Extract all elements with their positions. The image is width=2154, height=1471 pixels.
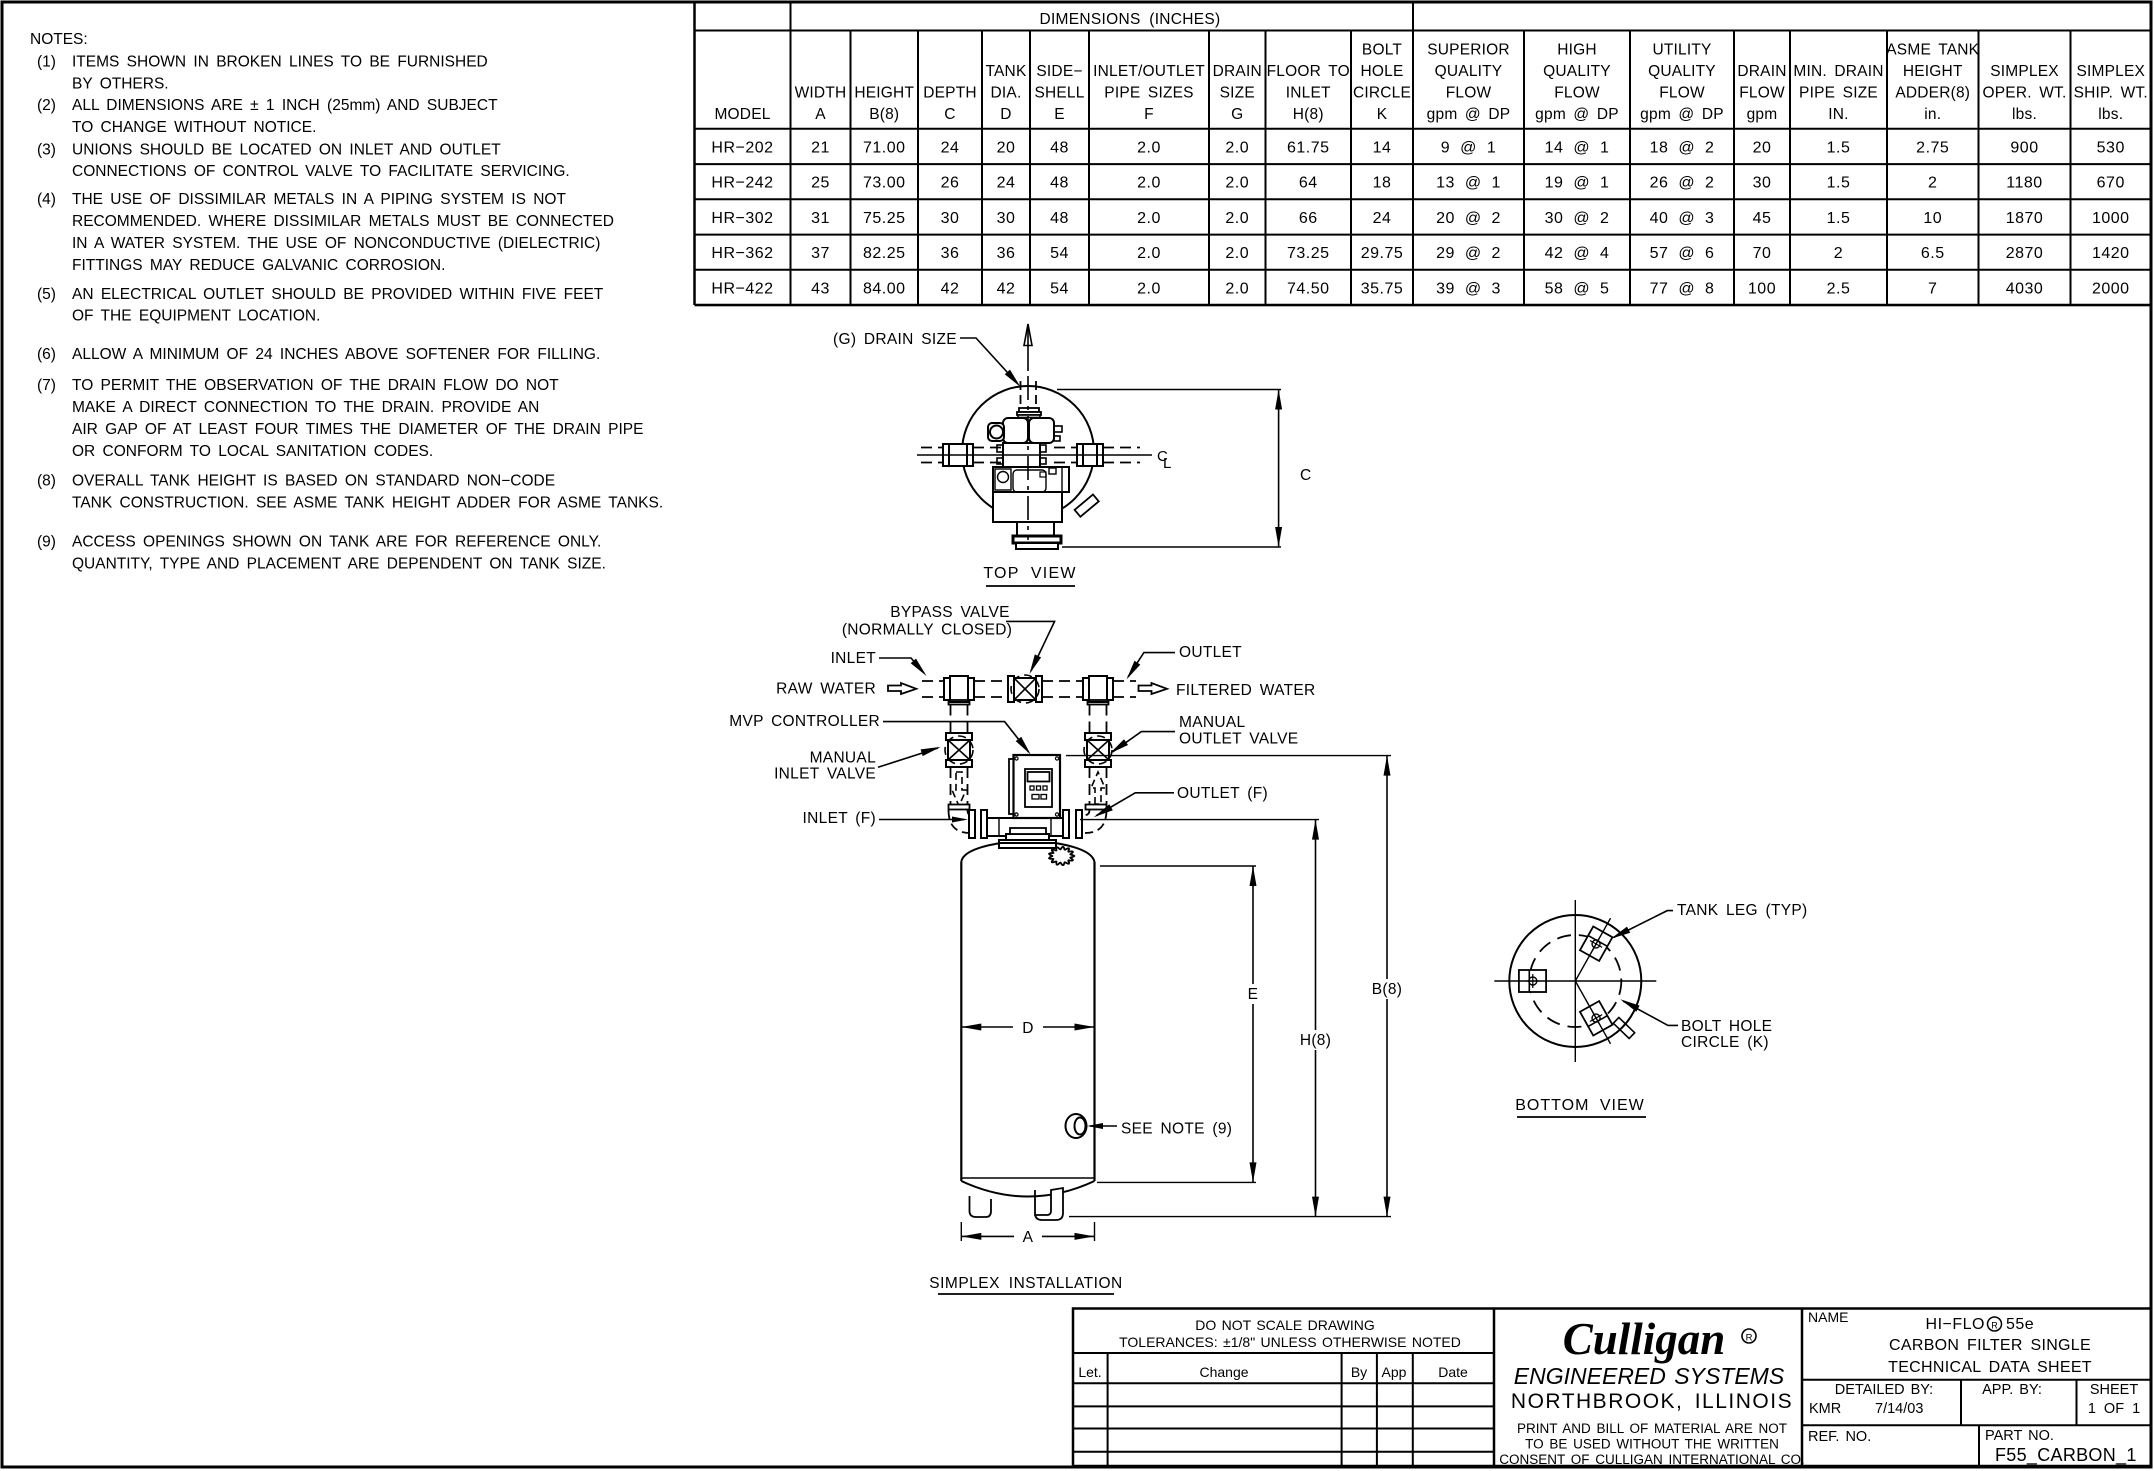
svg-text:2.0: 2.0 [1225, 245, 1249, 262]
svg-text:NORTHBROOK, ILLINOIS: NORTHBROOK, ILLINOIS [1511, 1390, 1793, 1413]
top view: bottom cylinder [1017, 522, 1054, 538]
svg-text:TO PERMIT THE OBSERVATION OF T: TO PERMIT THE OBSERVATION OF THE DRAIN F… [72, 377, 559, 394]
simplex: left elbow flange [949, 805, 970, 810]
svg-text:SEE NOTE (9): SEE NOTE (9) [1121, 1121, 1232, 1138]
top view: vertical centerline [1027, 324, 1029, 371]
simplex: right elbow [1085, 810, 1107, 833]
simplex: tank dome [961, 843, 1094, 862]
svg-text:(1): (1) [37, 54, 56, 71]
svg-text:BY OTHERS.: BY OTHERS. [72, 75, 169, 92]
title block: revision table [1073, 1352, 1494, 1354]
svg-text:TO CHANGE WITHOUT NOTICE.: TO CHANGE WITHOUT NOTICE. [72, 119, 316, 136]
svg-text:37: 37 [811, 245, 830, 262]
svg-text:74.50: 74.50 [1287, 280, 1330, 297]
svg-text:D: D [1022, 1020, 1034, 1037]
svg-text:54: 54 [1050, 280, 1069, 297]
svg-text:42: 42 [997, 280, 1016, 297]
svg-text:HR−362: HR−362 [711, 245, 773, 262]
svg-text:INLET: INLET [831, 650, 877, 667]
svg-text:670: 670 [2097, 175, 2125, 192]
svg-text:QUALITY: QUALITY [1648, 63, 1716, 80]
simplex: access port [1066, 1114, 1087, 1138]
simplex: dim H(8) extension top [1080, 819, 1319, 821]
svg-text:HI−FLO: HI−FLO [1926, 1316, 1985, 1333]
top view: drain flange [1019, 408, 1039, 412]
simplex: see note 9 label [1090, 1125, 1117, 1127]
top view: right small tabs [1054, 426, 1062, 432]
title block: frame [1073, 1309, 2151, 1467]
svg-text:40 @ 3: 40 @ 3 [1650, 210, 1715, 227]
simplex: fill port [1049, 847, 1074, 865]
svg-text:71.00: 71.00 [863, 139, 906, 156]
svg-text:CONSENT OF CULLIGAN INTERNATIO: CONSENT OF CULLIGAN INTERNATIONAL CO. [1499, 1452, 1805, 1467]
svg-text:B(8): B(8) [1372, 981, 1402, 998]
svg-text:G: G [1231, 106, 1243, 123]
svg-text:7/14/03: 7/14/03 [1875, 1401, 1923, 1417]
svg-text:MIN. DRAIN: MIN. DRAIN [1793, 63, 1883, 80]
svg-text:14 @ 1: 14 @ 1 [1545, 139, 1610, 156]
svg-text:BOTTOM VIEW: BOTTOM VIEW [1515, 1097, 1644, 1114]
svg-text:QUANTITY, TYPE AND PLACEMENT A: QUANTITY, TYPE AND PLACEMENT ARE DEPENDE… [72, 555, 606, 572]
svg-text:RAW WATER: RAW WATER [776, 680, 876, 697]
svg-text:29.75: 29.75 [1361, 245, 1404, 262]
svg-text:SUPERIOR: SUPERIOR [1427, 42, 1510, 59]
svg-text:45: 45 [1753, 210, 1772, 227]
simplex: tank body [960, 862, 962, 1181]
svg-text:2.0: 2.0 [1137, 139, 1161, 156]
svg-text:(NORMALLY CLOSED): (NORMALLY CLOSED) [842, 621, 1012, 638]
svg-text:48: 48 [1050, 139, 1069, 156]
svg-text:OVERALL TANK HEIGHT IS BASED O: OVERALL TANK HEIGHT IS BASED ON STANDARD… [72, 473, 555, 490]
svg-text:C: C [944, 106, 955, 123]
svg-text:43: 43 [811, 280, 830, 297]
svg-text:73.25: 73.25 [1287, 245, 1330, 262]
svg-text:(6): (6) [37, 346, 56, 363]
svg-text:54: 54 [1050, 245, 1069, 262]
simplex: left union at valve [969, 810, 975, 838]
svg-text:UNIONS SHOULD BE LOCATED ON IN: UNIONS SHOULD BE LOCATED ON INLET AND OU… [72, 141, 501, 158]
top view: drain pipe dashed [1020, 381, 1022, 408]
svg-text:MODEL: MODEL [714, 106, 770, 123]
svg-text:25: 25 [811, 175, 830, 192]
simplex: raw water arrow [888, 683, 916, 694]
bottom view: radial lines [1575, 918, 1610, 981]
svg-text:FLOW: FLOW [1446, 85, 1492, 102]
svg-text:35.75: 35.75 [1361, 280, 1404, 297]
svg-text:ACCESS OPENINGS SHOWN ON TANK: ACCESS OPENINGS SHOWN ON TANK ARE FOR RE… [72, 534, 601, 551]
svg-text:20 @ 2: 20 @ 2 [1436, 210, 1501, 227]
svg-text:TANK CONSTRUCTION. SEE ASME TA: TANK CONSTRUCTION. SEE ASME TANK HEIGHT … [72, 494, 663, 511]
svg-text:HR−242: HR−242 [711, 175, 773, 192]
simplex: flow arrow up (right pipe) [1091, 772, 1105, 804]
svg-text:57 @ 6: 57 @ 6 [1650, 245, 1715, 262]
simplex: dim E line [1252, 866, 1254, 984]
svg-text:R: R [1746, 1333, 1753, 1344]
simplex: dim D [961, 1026, 1013, 1028]
top view: motor housing [993, 467, 1069, 492]
svg-text:(4): (4) [37, 191, 56, 208]
svg-text:PIPE SIZES: PIPE SIZES [1104, 85, 1193, 102]
top view: dim C extension lines [1057, 389, 1281, 391]
svg-text:ITEMS SHOWN IN BROKEN LINES TO: ITEMS SHOWN IN BROKEN LINES TO BE FURNIS… [72, 54, 488, 71]
svg-text:48: 48 [1050, 175, 1069, 192]
svg-text:QUALITY: QUALITY [1543, 63, 1611, 80]
svg-text:App: App [1382, 1364, 1407, 1380]
svg-text:WIDTH: WIDTH [795, 85, 847, 102]
svg-text:E: E [1054, 106, 1065, 123]
svg-text:2.0: 2.0 [1225, 280, 1249, 297]
svg-text:in.: in. [1924, 106, 1941, 123]
svg-text:OF THE EQUIPMENT LOCATION.: OF THE EQUIPMENT LOCATION. [72, 308, 320, 325]
svg-text:TANK LEG (TYP): TANK LEG (TYP) [1677, 902, 1807, 919]
svg-text:2: 2 [1928, 175, 1937, 192]
svg-text:HR−422: HR−422 [711, 280, 773, 297]
svg-text:TOP VIEW: TOP VIEW [983, 565, 1076, 582]
title block: ref/part row [1802, 1424, 2151, 1426]
svg-text:QUALITY: QUALITY [1435, 63, 1503, 80]
svg-text:66: 66 [1299, 210, 1318, 227]
svg-text:gpm @ DP: gpm @ DP [1535, 106, 1619, 123]
svg-text:2.0: 2.0 [1225, 139, 1249, 156]
svg-text:BOLT: BOLT [1362, 42, 1402, 59]
top view: horizontal pipe dashed lines [921, 447, 944, 449]
svg-text:530: 530 [2097, 139, 2125, 156]
top view: horizontal centerline [917, 454, 1152, 456]
svg-text:IN.: IN. [1828, 106, 1848, 123]
svg-text:10: 10 [1923, 210, 1942, 227]
svg-text:20: 20 [997, 139, 1016, 156]
svg-text:SIMPLEX INSTALLATION: SIMPLEX INSTALLATION [929, 1275, 1122, 1292]
svg-text:REF. NO.: REF. NO. [1808, 1429, 1871, 1445]
svg-text:55e: 55e [2006, 1316, 2034, 1333]
svg-text:Let.: Let. [1078, 1364, 1101, 1380]
bottom view: tank leg west [1519, 970, 1546, 992]
svg-text:(2): (2) [37, 97, 56, 114]
svg-text:UTILITY: UTILITY [1652, 42, 1711, 59]
svg-text:30: 30 [997, 210, 1016, 227]
simplex: left tee [950, 676, 968, 702]
bottom view: outer circle [1509, 915, 1641, 1047]
bottom view: bolt hole circle [1529, 935, 1621, 1027]
svg-text:SHELL: SHELL [1034, 85, 1084, 102]
top view: right union [1077, 444, 1103, 466]
svg-text:FLOW: FLOW [1659, 85, 1705, 102]
svg-text:26: 26 [941, 175, 960, 192]
svg-text:FILTERED WATER: FILTERED WATER [1176, 682, 1316, 699]
svg-text:2000: 2000 [2092, 280, 2130, 297]
svg-text:58 @ 5: 58 @ 5 [1545, 280, 1610, 297]
simplex: tank top flange stack [999, 840, 1056, 848]
simplex: right union at valve [1063, 810, 1069, 838]
svg-text:2.0: 2.0 [1225, 175, 1249, 192]
svg-text:2: 2 [1834, 245, 1843, 262]
svg-text:TOLERANCES: ±1/8" UNLESS OTHE: TOLERANCES: ±1/8" UNLESS OTHERWISE NOTED [1119, 1334, 1461, 1350]
top view: central valve body [1003, 443, 1040, 467]
svg-text:IN A WATER SYSTEM. THE USE OF: IN A WATER SYSTEM. THE USE OF NONCONDUCT… [72, 235, 600, 252]
svg-text:TO BE USED WITHOUT THE WRITTEN: TO BE USED WITHOUT THE WRITTEN [1525, 1437, 1779, 1452]
svg-text:DETAILED BY:: DETAILED BY: [1835, 1382, 1933, 1398]
svg-text:HR−302: HR−302 [711, 210, 773, 227]
svg-text:lbs.: lbs. [2012, 106, 2037, 123]
svg-text:24: 24 [941, 139, 960, 156]
simplex: right leg [1035, 1188, 1063, 1220]
svg-text:By: By [1351, 1364, 1367, 1380]
svg-text:(5): (5) [37, 286, 56, 303]
svg-text:84.00: 84.00 [863, 280, 906, 297]
svg-text:SIDE−: SIDE− [1036, 63, 1082, 80]
svg-text:B(8): B(8) [869, 106, 899, 123]
svg-text:C: C [1300, 467, 1312, 484]
svg-text:Culligan: Culligan [1563, 1314, 1726, 1364]
svg-text:(G) DRAIN SIZE: (G) DRAIN SIZE [833, 331, 957, 348]
svg-text:2.0: 2.0 [1225, 210, 1249, 227]
svg-text:OUTLET (F): OUTLET (F) [1177, 785, 1268, 802]
svg-text:31: 31 [811, 210, 830, 227]
bottom view: tank leg northeast [1580, 926, 1612, 960]
top view: drain arrow [1024, 324, 1032, 346]
svg-text:36: 36 [997, 245, 1016, 262]
top view: left union [943, 444, 973, 466]
svg-text:BYPASS VALVE: BYPASS VALVE [890, 604, 1009, 621]
svg-text:HR−202: HR−202 [711, 139, 773, 156]
svg-text:18 @ 2: 18 @ 2 [1650, 139, 1715, 156]
svg-text:INLET: INLET [1286, 85, 1331, 102]
svg-text:FLOW: FLOW [1739, 85, 1785, 102]
svg-text:21: 21 [811, 139, 830, 156]
simplex: left elbow [949, 810, 971, 833]
svg-text:K: K [1377, 106, 1388, 123]
svg-text:MAKE A DIRECT CONNECTION TO TH: MAKE A DIRECT CONNECTION TO THE DRAIN. P… [72, 399, 539, 416]
svg-text:FLOW: FLOW [1554, 85, 1600, 102]
svg-text:1.5: 1.5 [1827, 210, 1851, 227]
svg-text:36: 36 [941, 245, 960, 262]
svg-text:D: D [1000, 106, 1011, 123]
svg-text:9 @ 1: 9 @ 1 [1441, 139, 1496, 156]
svg-text:2.0: 2.0 [1137, 245, 1161, 262]
simplex: dim E extension bottom [1097, 1181, 1256, 1183]
simplex: right tee [1089, 676, 1107, 702]
simplex: filtered water arrow [1139, 683, 1168, 694]
svg-text:14: 14 [1373, 139, 1392, 156]
svg-text:1000: 1000 [2092, 210, 2130, 227]
simplex: manual outlet valve [1085, 733, 1111, 740]
svg-text:A: A [1023, 1229, 1034, 1246]
svg-text:MANUAL: MANUAL [810, 750, 876, 767]
top view: lower housing [993, 492, 1062, 522]
svg-text:2.5: 2.5 [1827, 280, 1851, 297]
svg-text:DIA.: DIA. [991, 85, 1022, 102]
svg-text:Date: Date [1438, 1364, 1468, 1380]
svg-text:OUTLET VALVE: OUTLET VALVE [1179, 731, 1298, 748]
svg-text:HIGH: HIGH [1557, 42, 1597, 59]
svg-text:TANK: TANK [986, 63, 1027, 80]
svg-text:H(8): H(8) [1293, 106, 1324, 123]
simplex: dim A [961, 1235, 1014, 1237]
svg-text:1180: 1180 [2006, 175, 2042, 192]
svg-text:A: A [815, 106, 826, 123]
svg-text:H(8): H(8) [1300, 1032, 1331, 1049]
simplex: control valve body [987, 818, 1063, 836]
svg-text:2.75: 2.75 [1916, 139, 1949, 156]
title block: detailed/app/sheet row [1802, 1379, 2151, 1381]
bottom view: tank leg southeast [1580, 1001, 1612, 1035]
svg-text:SHIP. WT.: SHIP. WT. [2074, 85, 2148, 102]
simplex: mvp controller hinge [1009, 759, 1014, 814]
svg-text:PART NO.: PART NO. [1985, 1428, 2054, 1444]
svg-text:MVP CONTROLLER: MVP CONTROLLER [729, 713, 880, 730]
svg-text:6.5: 6.5 [1921, 245, 1945, 262]
svg-text:PIPE SIZE: PIPE SIZE [1799, 85, 1878, 102]
top view: valve bonnet left [1003, 418, 1028, 443]
svg-text:E: E [1248, 986, 1259, 1003]
simplex: bottom floor line [1069, 1216, 1391, 1218]
svg-text:HEIGHT: HEIGHT [854, 85, 914, 102]
simplex: dim B(8) line [1386, 756, 1388, 979]
svg-text:BOLT HOLE: BOLT HOLE [1681, 1018, 1772, 1035]
svg-text:2.0: 2.0 [1137, 280, 1161, 297]
svg-text:DIMENSIONS (INCHES): DIMENSIONS (INCHES) [1039, 11, 1220, 28]
svg-text:19 @ 1: 19 @ 1 [1545, 175, 1610, 192]
svg-text:1.5: 1.5 [1827, 175, 1851, 192]
svg-text:48: 48 [1050, 210, 1069, 227]
title block: section dividers [1493, 1309, 1496, 1467]
svg-text:(8): (8) [37, 473, 56, 490]
top view: leader (G) [960, 338, 1018, 384]
svg-text:(9): (9) [37, 534, 56, 551]
svg-text:1.5: 1.5 [1827, 139, 1851, 156]
svg-text:HOLE: HOLE [1360, 63, 1403, 80]
svg-text:PRINT AND BILL OF MATERIAL ARE: PRINT AND BILL OF MATERIAL ARE NOT [1517, 1421, 1787, 1436]
svg-text:CIRCLE: CIRCLE [1353, 85, 1411, 102]
svg-text:64: 64 [1299, 175, 1318, 192]
top view: valve bonnet right [1029, 418, 1054, 443]
svg-text:MANUAL: MANUAL [1179, 714, 1245, 731]
svg-text:HEIGHT: HEIGHT [1903, 63, 1963, 80]
svg-text:DRAIN: DRAIN [1737, 63, 1786, 80]
bottom view: crosshair [1494, 980, 1656, 982]
svg-text:ALL DIMENSIONS ARE ± 1 INCH (2: ALL DIMENSIONS ARE ± 1 INCH (25mm) AND S… [72, 97, 498, 114]
svg-text:SIMPLEX: SIMPLEX [1990, 63, 2059, 80]
svg-text:73.00: 73.00 [863, 175, 906, 192]
bottom view: edge tab [1613, 1017, 1634, 1038]
svg-text:lbs.: lbs. [2098, 106, 2123, 123]
svg-text:4030: 4030 [2006, 280, 2044, 297]
svg-text:24: 24 [997, 175, 1016, 192]
svg-text:18: 18 [1373, 175, 1392, 192]
svg-text:F55_CARBON_1: F55_CARBON_1 [1995, 1445, 2137, 1466]
svg-text:1420: 1420 [2092, 245, 2130, 262]
svg-text:2870: 2870 [2006, 245, 2044, 262]
simplex: bypass valve [1008, 676, 1014, 702]
simplex: left vertical pipe [950, 705, 952, 734]
svg-text:ADDER(8): ADDER(8) [1895, 85, 1970, 102]
top view: left tab with hole [988, 423, 1004, 441]
simplex: top pipe dashed [922, 680, 944, 682]
svg-text:OPER. WT.: OPER. WT. [1982, 85, 2066, 102]
svg-text:7: 7 [1928, 280, 1937, 297]
simplex: right elbow flange [1086, 805, 1107, 810]
svg-text:39 @ 3: 39 @ 3 [1436, 280, 1501, 297]
svg-text:ENGINEERED SYSTEMS: ENGINEERED SYSTEMS [1514, 1363, 1785, 1389]
svg-text:SHEET: SHEET [2090, 1382, 2138, 1398]
svg-text:NOTES:: NOTES: [30, 31, 88, 48]
svg-text:gpm: gpm [1747, 106, 1778, 123]
svg-text:RECOMMENDED. WHERE DISSIMILAR: RECOMMENDED. WHERE DISSIMILAR METALS MUS… [72, 213, 614, 230]
svg-text:20: 20 [1753, 139, 1772, 156]
svg-text:77 @ 8: 77 @ 8 [1650, 280, 1715, 297]
svg-text:gpm @ DP: gpm @ DP [1640, 106, 1724, 123]
svg-text:82.25: 82.25 [863, 245, 906, 262]
svg-text:30: 30 [1753, 175, 1772, 192]
svg-text:DO NOT SCALE DRAWING: DO NOT SCALE DRAWING [1195, 1317, 1375, 1333]
simplex: right vertical pipe [1089, 705, 1091, 734]
simplex: dim A extension lines [960, 1222, 962, 1241]
svg-text:ASME TANK: ASME TANK [1886, 42, 1979, 59]
svg-text:OR CONFORM TO LOCAL SANITATION: OR CONFORM TO LOCAL SANITATION CODES. [72, 443, 433, 460]
svg-text:70: 70 [1753, 245, 1772, 262]
svg-text:R: R [1991, 1321, 1998, 1331]
svg-text:(7): (7) [37, 377, 56, 394]
simplex: dim E extension top [1100, 865, 1256, 867]
svg-text:KMR: KMR [1809, 1401, 1841, 1417]
svg-text:AN ELECTRICAL OUTLET SHOULD BE: AN ELECTRICAL OUTLET SHOULD BE PROVIDED … [72, 286, 604, 303]
svg-text:2.0: 2.0 [1137, 175, 1161, 192]
simplex: flow arrow down (left pipe) [952, 772, 966, 806]
svg-text:INLET/OUTLET: INLET/OUTLET [1093, 63, 1205, 80]
svg-text:SIMPLEX: SIMPLEX [2076, 63, 2145, 80]
top view: tank circle [962, 386, 1094, 518]
svg-text:1870: 1870 [2006, 210, 2044, 227]
svg-text:OUTLET: OUTLET [1179, 644, 1242, 661]
simplex: dim H(8) line [1315, 820, 1317, 1030]
svg-text:(3): (3) [37, 141, 56, 158]
dimensions table [693, 4, 696, 306]
svg-text:61.75: 61.75 [1287, 139, 1330, 156]
svg-text:1 OF 1: 1 OF 1 [2088, 1401, 2140, 1417]
svg-text:TECHNICAL DATA SHEET: TECHNICAL DATA SHEET [1888, 1359, 2092, 1376]
svg-text:29 @ 2: 29 @ 2 [1436, 245, 1501, 262]
svg-text:24: 24 [1373, 210, 1392, 227]
svg-text:26 @ 2: 26 @ 2 [1650, 175, 1715, 192]
svg-text:CIRCLE (K): CIRCLE (K) [1681, 1034, 1769, 1051]
svg-text:900: 900 [2010, 139, 2038, 156]
simplex: mvp controller box [1014, 755, 1061, 818]
svg-text:CARBON FILTER SINGLE: CARBON FILTER SINGLE [1889, 1337, 2091, 1354]
svg-text:ALLOW A MINIMUM OF 24 INCHES A: ALLOW A MINIMUM OF 24 INCHES ABOVE SOFTE… [72, 346, 600, 363]
svg-text:Change: Change [1199, 1364, 1248, 1380]
simplex: left leg [970, 1196, 992, 1217]
simplex: manual inlet valve [946, 733, 972, 740]
svg-text:CONNECTIONS OF CONTROL VALVE T: CONNECTIONS OF CONTROL VALVE TO FACILITA… [72, 163, 570, 180]
svg-text:75.25: 75.25 [863, 210, 906, 227]
top view: dim C line [1278, 390, 1280, 548]
svg-text:NAME: NAME [1808, 1309, 1848, 1325]
simplex: dim B(8) extension top [1066, 755, 1391, 757]
svg-text:gpm @ DP: gpm @ DP [1427, 106, 1511, 123]
svg-text:FLOOR TO: FLOOR TO [1267, 63, 1350, 80]
svg-text:APP. BY:: APP. BY: [1982, 1382, 2042, 1398]
svg-text:100: 100 [1748, 280, 1776, 297]
svg-text:SIZE: SIZE [1220, 85, 1255, 102]
svg-text:30: 30 [941, 210, 960, 227]
svg-text:DRAIN: DRAIN [1213, 63, 1262, 80]
svg-text:42: 42 [941, 280, 960, 297]
svg-text:F: F [1144, 106, 1154, 123]
svg-text:30 @ 2: 30 @ 2 [1545, 210, 1610, 227]
svg-text:INLET (F): INLET (F) [803, 810, 876, 827]
svg-text:L: L [1163, 455, 1171, 472]
svg-text:THE USE OF DISSIMILAR METALS I: THE USE OF DISSIMILAR METALS IN A PIPING… [72, 191, 566, 208]
